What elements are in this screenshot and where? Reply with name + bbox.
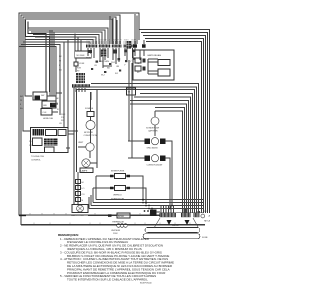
connector P1 strip B bbox=[99, 45, 110, 48]
svg-text:THERMIQUE: THERMIQUE bbox=[112, 222, 124, 224]
wire stubs to control box bbox=[75, 34, 81, 52]
svg-text:LIMITEUR: LIMITEUR bbox=[111, 230, 121, 232]
clock module box bbox=[33, 92, 47, 100]
wire fan1 e bbox=[49, 30, 51, 96]
svg-text:8101P570-60: 8101P570-60 bbox=[140, 283, 152, 285]
sensor probe circle bbox=[146, 111, 160, 136]
svg-text:MOTEUR: MOTEUR bbox=[84, 132, 93, 134]
door switch SW2 bbox=[96, 174, 143, 202]
connector P3 strip B bbox=[181, 213, 191, 217]
wire L4 frame left bbox=[25, 19, 112, 96]
ground leader lines bbox=[154, 218, 198, 228]
wire MR8 bbox=[155, 108, 185, 214]
wire tick marks bus1 bbox=[30, 213, 190, 224]
lamp L2 in box bbox=[71, 205, 88, 218]
wire drop f bbox=[138, 30, 140, 40]
clock lamp box bbox=[41, 109, 54, 121]
svg-text:1 BK: 1 BK bbox=[61, 114, 66, 116]
svg-text:23252729: 23252729 bbox=[112, 40, 122, 42]
connector P3 strip A bbox=[160, 213, 177, 217]
wire bus B4 bbox=[89, 197, 203, 209]
motor M1 convection fan bbox=[84, 120, 98, 143]
wire MR5 bbox=[134, 97, 191, 213]
svg-text:LO: LO bbox=[82, 188, 85, 190]
wire L5 frame left bbox=[28, 22, 46, 93]
wire TR5 bbox=[146, 42, 202, 214]
wire TR1 to right frame bbox=[139, 30, 210, 214]
wire MR1 relay out bbox=[91, 84, 199, 214]
wire drop a bbox=[109, 16, 111, 44]
svg-text:3537: 3537 bbox=[131, 40, 136, 42]
wire fan1 d bbox=[19, 47, 56, 102]
thermal fuse TF1 bbox=[85, 92, 94, 121]
wire elem feeds bbox=[129, 60, 132, 158]
wire fan2 g bbox=[39, 42, 90, 44]
component cluster under strip A bbox=[86, 48, 94, 60]
terminal capsule B bbox=[143, 234, 200, 239]
connector P2 strip bbox=[72, 84, 90, 87]
wire fan1 b bbox=[23, 42, 64, 128]
misc terminal marks under P1 bbox=[91, 58, 136, 74]
svg-text:FUSIBLE: FUSIBLE bbox=[85, 108, 94, 110]
wire center loop outer bbox=[73, 87, 75, 205]
membrane labels bbox=[29, 141, 45, 162]
wire fan1 g bbox=[53, 32, 55, 96]
component cluster under strip C bbox=[111, 48, 119, 64]
svg-text:LAMPE FOUR: LAMPE FOUR bbox=[71, 214, 84, 217]
svg-text:LAMPE: LAMPE bbox=[81, 170, 88, 173]
wire fan1 a0 dark bbox=[26, 20, 50, 92]
svg-text:DBL OVEN: DBL OVEN bbox=[99, 61, 109, 63]
svg-text:131517192: 131517192 bbox=[99, 40, 110, 42]
connector P1 strip C bbox=[112, 45, 122, 48]
wire drop b bbox=[112, 18, 114, 44]
terminal block TB1 bbox=[150, 210, 160, 217]
connector P1 strip hatch bbox=[87, 44, 135, 48]
svg-text:INTER: INTER bbox=[118, 216, 124, 218]
bake element E2 bbox=[128, 155, 170, 208]
ground G2 bbox=[185, 220, 190, 225]
connector P1 pin numbers bbox=[86, 40, 136, 42]
wire drop e bbox=[136, 16, 138, 41]
bundle wire labels bbox=[59, 56, 62, 72]
fuse F1 bbox=[74, 58, 85, 72]
connector P1 strip E bbox=[131, 45, 137, 48]
svg-text:FL/NE: FL/NE bbox=[202, 237, 208, 239]
wire fan1 a bbox=[25, 40, 68, 128]
svg-text:CAPTEUR: CAPTEUR bbox=[148, 130, 158, 133]
connector P3 top rail bbox=[156, 211, 203, 213]
motor M2 cooling fan bbox=[78, 142, 94, 158]
wire center top rail bbox=[90, 92, 92, 100]
svg-text:VERROU: VERROU bbox=[113, 195, 122, 197]
control box NO 3048 bbox=[75, 51, 92, 58]
svg-text:SONDE FOUR: SONDE FOUR bbox=[146, 128, 160, 130]
interlock switch on bus bbox=[108, 213, 130, 224]
corner junction mark bbox=[19, 215, 26, 217]
wire drop d bbox=[134, 14, 136, 40]
wire fan2 f bbox=[37, 40, 93, 45]
connector P2 hatch bbox=[73, 84, 88, 88]
wire TR3 bbox=[143, 36, 206, 214]
node pin list bbox=[61, 114, 66, 122]
display module box bbox=[42, 101, 56, 108]
svg-text:HORLOGE: HORLOGE bbox=[43, 118, 54, 120]
svg-text:230V: 230V bbox=[113, 233, 118, 235]
svg-text:CUISSON 2500W: CUISSON 2500W bbox=[147, 165, 164, 167]
wire center loop right bbox=[96, 90, 98, 169]
wire L3 frame left bbox=[23, 17, 116, 131]
connector P1 strip A bbox=[86, 45, 97, 48]
svg-text:L1 BK: L1 BK bbox=[79, 63, 85, 65]
wire bus B2 bbox=[93, 188, 203, 203]
component cluster under strip B bbox=[99, 48, 112, 68]
door switch SW3 bbox=[93, 186, 146, 205]
wire center loop inner bbox=[76, 90, 78, 173]
node labels left margin bbox=[20, 96, 23, 110]
aux box XFMR bbox=[127, 88, 136, 95]
connector P3 strip C bbox=[194, 213, 200, 217]
wire MR9 bbox=[155, 111, 183, 213]
wire MR6 bbox=[130, 101, 189, 214]
membrane switch box bbox=[31, 128, 69, 153]
wire fan1 f bbox=[51, 30, 53, 96]
relay board box bbox=[133, 50, 174, 80]
wire fan2 e bbox=[35, 37, 96, 44]
connector P3 hatch bbox=[161, 213, 199, 217]
svg-text:VENT: VENT bbox=[78, 142, 84, 144]
svg-text:LED: LED bbox=[43, 105, 47, 107]
wire fan2 b bbox=[29, 30, 105, 44]
top right junction cluster bbox=[127, 40, 146, 49]
wire fan2 c bbox=[31, 32, 102, 44]
svg-text:INTER PORTE: INTER PORTE bbox=[111, 171, 125, 173]
wire MR2 bbox=[74, 87, 197, 213]
notes block bbox=[60, 237, 174, 282]
wire membrane out bbox=[66, 131, 78, 148]
wire bus B5 long bbox=[88, 215, 160, 217]
svg-text:GRIL 3600W: GRIL 3600W bbox=[147, 148, 159, 150]
svg-text:TOUTE INTERVENTION SUR LE CABL: TOUTE INTERVENTION SUR LE CABLAGE DE L'A… bbox=[67, 278, 148, 282]
svg-text:NO 3048: NO 3048 bbox=[77, 55, 86, 57]
fuse link on bus2 bbox=[21, 224, 205, 235]
wire cluster to bundle bbox=[47, 93, 62, 112]
component cluster under strip E bbox=[132, 48, 135, 58]
wire relay internal bbox=[140, 50, 158, 74]
wire P3 drops bbox=[161, 205, 202, 213]
wire drop c bbox=[116, 20, 118, 44]
wire MR3 bbox=[77, 90, 195, 214]
svg-text:CO: CO bbox=[82, 194, 85, 196]
P3 labels bbox=[201, 211, 211, 223]
wire TR2 bbox=[141, 33, 208, 214]
ground G1 bbox=[167, 220, 172, 225]
wire L1 outer frame loop bbox=[19, 13, 160, 215]
wire MR7 bbox=[130, 104, 187, 213]
broil element E1 bbox=[128, 138, 172, 205]
svg-text:CONTROL: CONTROL bbox=[31, 160, 42, 162]
wire P2 stubs bbox=[76, 88, 85, 92]
wire fan2 d bbox=[33, 35, 99, 45]
svg-text:TOUCHE CDE: TOUCHE CDE bbox=[31, 156, 45, 158]
svg-text:MASSE: MASSE bbox=[172, 224, 180, 227]
lamp L1 oven bbox=[80, 159, 97, 173]
svg-text:CARTE RELAIS: CARTE RELAIS bbox=[147, 54, 162, 57]
component cluster under strip D bbox=[124, 48, 127, 60]
junction dots bbox=[142, 199, 173, 212]
wire fan1 c bbox=[21, 45, 60, 116]
misc terminal labels under P1 bbox=[94, 61, 132, 77]
terminal capsule A bbox=[145, 228, 200, 233]
svg-text:122102961: 122102961 bbox=[86, 40, 97, 42]
wire id labels bbox=[56, 98, 63, 125]
wire bus B3 bbox=[91, 195, 203, 206]
connector P1 pin ticks bbox=[87, 41, 136, 45]
switch chain S1 bbox=[76, 172, 85, 205]
svg-text:NE 5-8: NE 5-8 bbox=[204, 221, 211, 223]
wire L2 frame loop bbox=[21, 15, 205, 225]
relay K1 block bbox=[76, 71, 85, 84]
connector P1 strip D bbox=[124, 45, 129, 48]
wire MR4 bbox=[140, 94, 193, 214]
wire TR4 bbox=[145, 39, 204, 214]
wire fan2 a bbox=[28, 28, 108, 44]
wire bus B1 bbox=[96, 176, 203, 200]
